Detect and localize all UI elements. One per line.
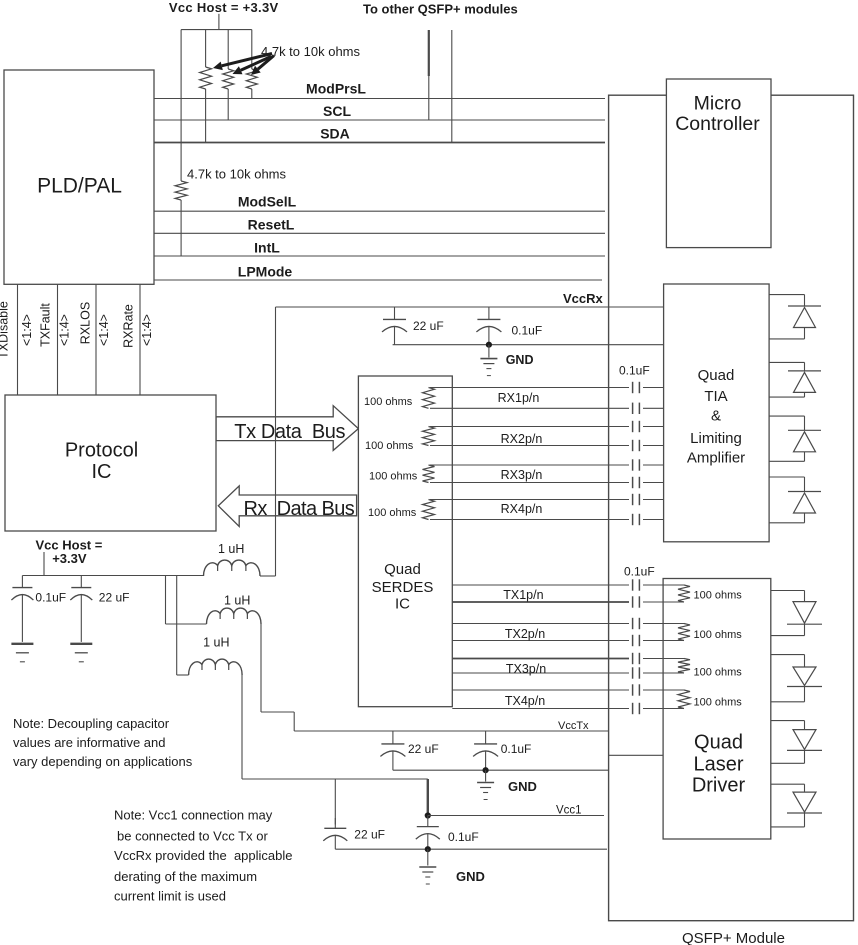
svg-text:IC: IC [92, 461, 112, 483]
svg-text:4.7k to 10k ohms: 4.7k to 10k ohms [187, 167, 286, 182]
svg-text:100 ohms: 100 ohms [364, 396, 413, 408]
svg-text:Tx Data Bus: Tx Data Bus [234, 421, 345, 443]
svg-text:VccRx: VccRx [563, 291, 604, 306]
svg-text:100 ohms: 100 ohms [369, 471, 418, 483]
svg-text:IntL: IntL [254, 240, 280, 256]
svg-text:Quad: Quad [384, 561, 421, 578]
svg-text:VccTx: VccTx [558, 720, 589, 732]
svg-text:SCL: SCL [323, 103, 351, 119]
svg-text:0.1uF: 0.1uF [501, 742, 532, 756]
svg-text:22 uF: 22 uF [354, 828, 385, 842]
svg-text:<1:4>: <1:4> [140, 314, 154, 346]
svg-text:Vcc Host = +3.3V: Vcc Host = +3.3V [169, 0, 279, 15]
svg-text:1 uH: 1 uH [224, 593, 250, 607]
svg-text:<1:4>: <1:4> [97, 314, 111, 346]
svg-text:Laser: Laser [693, 754, 743, 776]
svg-text:&: & [711, 407, 721, 424]
svg-text:4.7k to 10k ohms: 4.7k to 10k ohms [261, 44, 360, 59]
svg-text:<1:4>: <1:4> [20, 314, 34, 346]
svg-text:100 ohms: 100 ohms [694, 590, 743, 602]
svg-text:Limiting: Limiting [690, 430, 742, 447]
svg-text:Micro: Micro [694, 93, 742, 115]
svg-text:RXLOS: RXLOS [79, 302, 93, 344]
svg-text:Note: Decoupling capacitor: Note: Decoupling capacitor [13, 716, 170, 731]
svg-text:SDA: SDA [320, 126, 350, 142]
svg-text:LPMode: LPMode [238, 264, 293, 280]
svg-text:derating of the maximum: derating of the maximum [114, 869, 257, 884]
svg-text:SERDES: SERDES [372, 579, 434, 596]
svg-text:22 uF: 22 uF [99, 591, 130, 605]
svg-text:100 ohms: 100 ohms [365, 440, 414, 452]
svg-text:QSFP+ Module: QSFP+ Module [682, 930, 785, 945]
svg-text:values are informative and: values are informative and [13, 735, 165, 750]
svg-text:TIA: TIA [704, 388, 727, 405]
svg-text:TXDisable: TXDisable [0, 301, 11, 359]
svg-text:0.1uF: 0.1uF [624, 565, 655, 579]
svg-text:Quad: Quad [698, 367, 735, 384]
svg-text:RXRate: RXRate [122, 304, 136, 348]
svg-text:100 ohms: 100 ohms [368, 507, 417, 519]
svg-text:100 ohms: 100 ohms [694, 667, 743, 679]
svg-text:0.1uF: 0.1uF [448, 830, 479, 844]
svg-text:TX2p/n: TX2p/n [505, 627, 545, 641]
svg-text:100 ohms: 100 ohms [694, 629, 743, 641]
svg-text:Amplifier: Amplifier [687, 449, 745, 466]
svg-text:22 uF: 22 uF [413, 319, 444, 333]
svg-text:Quad: Quad [694, 732, 743, 754]
svg-text:ModPrsL: ModPrsL [306, 81, 366, 97]
svg-text:0.1uF: 0.1uF [619, 364, 650, 378]
svg-text:GND: GND [506, 353, 534, 367]
svg-text:Driver: Driver [692, 774, 746, 796]
svg-text:TX3p/n: TX3p/n [506, 662, 546, 676]
svg-text:GND: GND [456, 869, 485, 884]
svg-text:1 uH: 1 uH [203, 636, 229, 650]
svg-text:ModSelL: ModSelL [238, 194, 297, 210]
svg-text:100 ohms: 100 ohms [694, 697, 743, 709]
svg-text:Note: Vcc1 connection may: Note: Vcc1 connection may [114, 808, 273, 823]
svg-text:1 uH: 1 uH [218, 542, 244, 556]
svg-text:0.1uF: 0.1uF [35, 591, 66, 605]
svg-text:GND: GND [508, 779, 537, 794]
svg-text:VccRx provided the applicable: VccRx provided the applicable [114, 848, 293, 863]
svg-text:RX1p/n: RX1p/n [498, 391, 540, 405]
svg-text:ResetL: ResetL [248, 217, 295, 233]
svg-text:To other QSFP+ modules: To other QSFP+ modules [363, 2, 518, 17]
svg-text:PLD/PAL: PLD/PAL [37, 175, 122, 198]
svg-text:Vcc1: Vcc1 [556, 805, 582, 817]
svg-text:RX4p/n: RX4p/n [501, 502, 543, 516]
svg-text:<1:4>: <1:4> [58, 314, 72, 346]
svg-text:0.1uF: 0.1uF [512, 324, 543, 338]
svg-text:TX1p/n: TX1p/n [503, 588, 543, 602]
svg-text:RX2p/n: RX2p/n [501, 432, 543, 446]
svg-text:be connected to Vcc Tx or: be connected to Vcc Tx or [117, 829, 268, 844]
svg-text:current limit is used: current limit is used [114, 889, 226, 904]
svg-text:+3.3V: +3.3V [52, 551, 87, 566]
svg-text:22 uF: 22 uF [408, 742, 439, 756]
svg-text:TX4p/n: TX4p/n [505, 694, 545, 708]
svg-text:Protocol: Protocol [65, 440, 138, 462]
svg-text:Controller: Controller [675, 113, 760, 135]
svg-text:vary depending on applications: vary depending on applications [13, 754, 193, 769]
svg-text:RX3p/n: RX3p/n [501, 468, 543, 482]
svg-text:TXFault: TXFault [39, 303, 53, 347]
svg-text:IC: IC [395, 596, 410, 613]
svg-text:Rx Data Bus: Rx Data Bus [244, 498, 355, 520]
